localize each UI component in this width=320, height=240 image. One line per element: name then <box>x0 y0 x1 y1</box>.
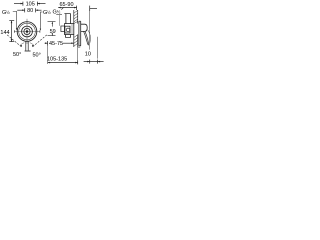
shared extension line left <box>47 46 49 64</box>
trim inner circle <box>24 28 30 34</box>
svg-text:59: 59 <box>50 29 56 35</box>
arrow swing right <box>32 45 34 47</box>
svg-text:80: 80 <box>27 8 33 14</box>
handle hub side view <box>81 24 88 31</box>
escutcheon side view <box>79 21 82 46</box>
dimension 59 vertical <box>48 22 56 36</box>
svg-text:105: 105 <box>26 2 35 8</box>
dimension 10 line <box>84 60 104 64</box>
extension tick top right <box>90 6 97 11</box>
svg-text:10: 10 <box>85 51 91 57</box>
swing arc right <box>30 43 34 46</box>
dimension 80 line <box>17 8 41 12</box>
swing line dashed right <box>34 35 47 46</box>
body cartridge block <box>65 26 70 33</box>
body rear boss <box>61 26 65 32</box>
coupling tick side view <box>56 14 62 16</box>
arrow swing left <box>20 45 22 47</box>
svg-text:50°: 50° <box>13 52 21 58</box>
extension line lever tip <box>97 37 99 59</box>
leader for G1/2 right front <box>40 12 42 29</box>
extension line handle face <box>89 9 91 50</box>
extension line wall rear bottom <box>77 47 79 64</box>
body cartridge circle <box>66 28 70 32</box>
dimension 43-75 tick <box>47 41 49 46</box>
trim middle circle <box>22 26 33 37</box>
wall lower hatching <box>74 35 78 47</box>
wall lower section lines <box>74 35 78 48</box>
lever side view <box>84 31 89 45</box>
svg-text:50°: 50° <box>33 53 41 59</box>
dimension 144 line <box>9 21 14 42</box>
svg-text:105-135: 105-135 <box>47 56 67 62</box>
extension line body front <box>59 15 61 26</box>
svg-text:65-90: 65-90 <box>59 2 73 8</box>
valve body side view <box>65 24 74 35</box>
bottom outlet pipe side view <box>66 35 71 38</box>
centerline horizontal front view <box>14 31 40 33</box>
dimension 105-135 line <box>48 60 78 64</box>
top inlet pipe side view <box>64 14 70 24</box>
escutcheon inner rim <box>19 23 36 40</box>
svg-text:144: 144 <box>0 30 9 36</box>
wall upper hatching <box>74 10 78 23</box>
dimension 65-90 line <box>58 6 76 10</box>
dimension 43-75 left approach <box>45 42 48 44</box>
leader G1/2 side <box>61 7 63 9</box>
lever stem front view <box>25 41 31 51</box>
center hub dot <box>26 30 29 33</box>
connection tick left <box>13 30 15 33</box>
svg-text:45-75: 45-75 <box>49 41 63 47</box>
dimension 43-75 right piece <box>63 42 74 44</box>
leader for G1/2 left <box>13 11 17 28</box>
escutcheon outer circle <box>17 22 37 42</box>
lever swing arc thin <box>88 30 91 43</box>
centerline vertical front view <box>26 19 28 44</box>
connection tick right <box>39 30 41 33</box>
wall band bottom foot <box>78 46 81 48</box>
dimension 105 line <box>14 2 46 6</box>
swing arc left <box>20 43 24 46</box>
body internal line 2 <box>71 24 73 35</box>
swing line dashed left <box>7 35 20 46</box>
wall upper section lines <box>74 10 78 24</box>
